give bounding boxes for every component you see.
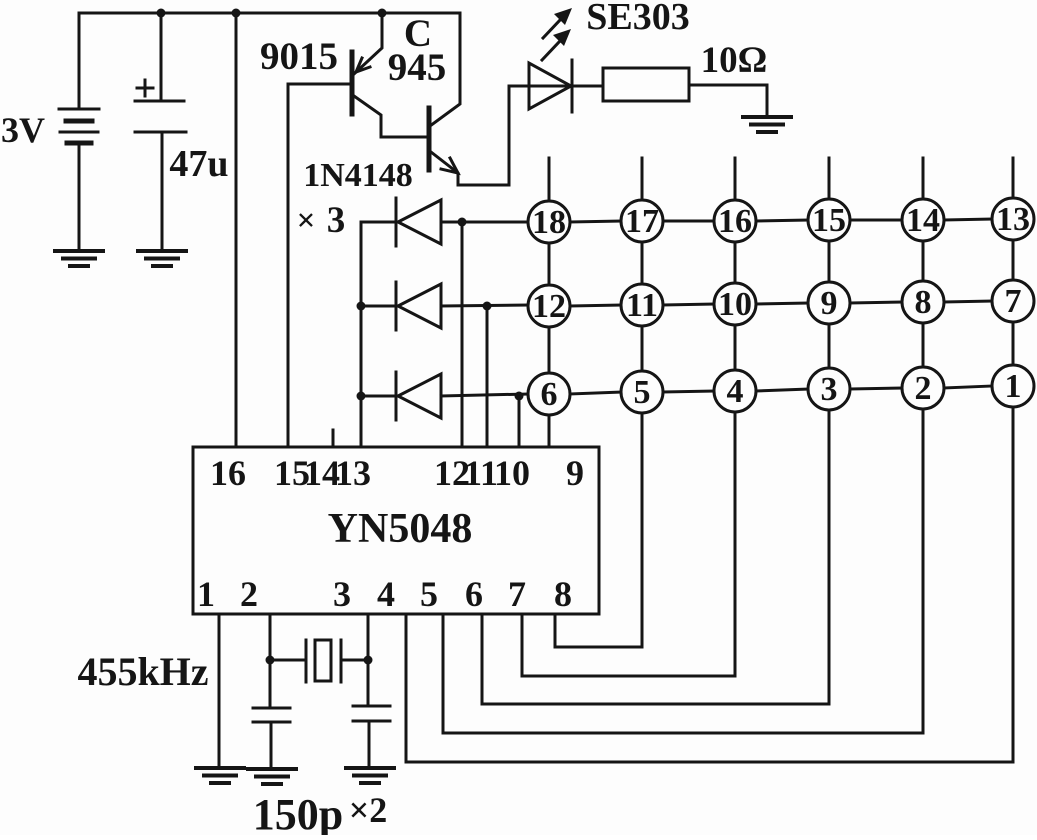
wire: key column 2 down to IC pin 5 route [922, 409, 925, 733]
node: diode row to IC pin 12 [458, 218, 467, 227]
wire: IC pin 2 down [269, 614, 272, 708]
wire: IC pin 4 to key column [406, 614, 1013, 762]
wire: +3V top supply rail [79, 12, 460, 15]
ground (C3) [346, 768, 394, 783]
wire: column 6 to IC pin 9 [548, 415, 551, 447]
node 6 [528, 373, 570, 415]
node 14 [902, 199, 944, 241]
node 1 [992, 365, 1034, 407]
svg-text:13: 13 [996, 201, 1030, 238]
svg-text:6: 6 [465, 574, 483, 614]
node: cathode bus junction D2 [357, 302, 366, 311]
node: rail junction to capacitor 47u [157, 9, 166, 18]
wire: IC pin 5 to key column [443, 614, 923, 733]
wire: matrix row 1 horizontal segments [570, 219, 992, 222]
ground (resistor) [743, 117, 791, 132]
wire: transistor Q1 base to IC pin 15 [288, 84, 350, 447]
ground (battery) [55, 251, 103, 266]
svg-text:11: 11 [464, 453, 498, 493]
svg-text:9: 9 [821, 285, 838, 322]
svg-text:10Ω: 10Ω [701, 40, 768, 81]
node: cathode bus junction D3 [357, 392, 366, 401]
wire: IC pin 8 to key column [555, 614, 642, 647]
svg-text:1N4148: 1N4148 [303, 157, 413, 194]
svg-text:150p: 150p [253, 790, 343, 835]
capacitor C3 150p [353, 706, 390, 768]
wire: key column 3 down to IC pin 6 route [828, 410, 831, 704]
svg-text:12: 12 [532, 288, 566, 325]
svg-text:18: 18 [532, 204, 566, 241]
node 11 [621, 284, 663, 326]
crystal X1 455kHz [270, 640, 368, 682]
svg-text:8: 8 [554, 574, 572, 614]
svg-text:10: 10 [718, 286, 752, 323]
node 15 [808, 199, 850, 241]
wire: matrix row 3 horizontal segments [570, 386, 992, 394]
capacitor C2 150p [253, 708, 290, 769]
svg-text:9015: 9015 [260, 35, 338, 78]
wire: IC pin 3 down [367, 614, 370, 706]
svg-text:YN5048: YN5048 [328, 506, 473, 552]
svg-text:3V: 3V [1, 110, 45, 150]
svg-text:10: 10 [494, 453, 530, 493]
wire: IC pin 6 to key column [482, 614, 829, 704]
wire: key column 4 down to IC pin 7 route [734, 412, 737, 676]
node: rail junction to IC pin 16 [232, 9, 241, 18]
svg-text:4: 4 [377, 574, 395, 614]
node: pin 3 / crystal right [364, 656, 373, 665]
svg-text:16: 16 [210, 453, 246, 493]
svg-text:SE303: SE303 [586, 0, 689, 38]
svg-text:7: 7 [1005, 283, 1022, 320]
wire: Q2 emitter to LED anode [509, 86, 529, 185]
svg-text:×2: ×2 [349, 790, 388, 830]
LED SE303 [529, 60, 603, 112]
wire: matrix row to IC pin 11 [486, 306, 489, 447]
node 16 [714, 200, 756, 242]
node 5 [621, 371, 663, 413]
node 18 [528, 201, 570, 243]
svg-text:16: 16 [718, 203, 752, 240]
diode D2 1N4148 [361, 282, 528, 330]
svg-text:3: 3 [821, 371, 838, 408]
svg-text:6: 6 [541, 376, 558, 413]
wire: IC pin 7 to key column [522, 614, 735, 676]
battery 3V [59, 13, 99, 251]
resistor R1 10 ohm [603, 68, 767, 117]
wire: key column stubs above matrix [549, 158, 1013, 201]
node: rail junction to Q1 emitter [378, 9, 387, 18]
svg-text:945: 945 [388, 46, 447, 89]
svg-text:14: 14 [906, 202, 940, 239]
svg-text:×: × [297, 203, 316, 239]
svg-text:17: 17 [625, 203, 659, 240]
wire: key column 1 down to IC pin 4 route [1012, 407, 1015, 762]
svg-text:15: 15 [812, 202, 846, 239]
ground (C2) [248, 769, 296, 784]
node 9 [808, 282, 850, 324]
svg-text:2: 2 [240, 574, 258, 614]
ground (pin 1) [196, 768, 244, 783]
wire: matrix row to IC pin 10 [518, 396, 521, 447]
node 3 [808, 368, 850, 410]
LED light arrow 1 [543, 8, 572, 38]
svg-text:3: 3 [333, 574, 351, 614]
svg-text:4: 4 [727, 373, 744, 410]
wire: matrix row to IC pin 12 [461, 222, 464, 447]
LED light arrow 2 [542, 29, 571, 60]
wire: key column 5 down to IC pin 8 route [641, 413, 644, 647]
node: diode row to IC pin 10 [515, 392, 524, 401]
node 7 [992, 280, 1034, 322]
wire: matrix row 2 horizontal segments [570, 301, 992, 306]
node 8 [902, 281, 944, 323]
node 10 [714, 283, 756, 325]
node 2 [902, 367, 944, 409]
wire: matrix verticals row2-row3 [549, 322, 1013, 373]
transistor Q2 C945 (NPN) [429, 13, 509, 185]
wire: matrix verticals row1-row2 [549, 240, 1013, 285]
svg-text:3: 3 [327, 200, 346, 241]
svg-text:11: 11 [626, 287, 658, 324]
svg-text:7: 7 [508, 574, 526, 614]
svg-text:1: 1 [1005, 368, 1022, 405]
node 4 [714, 370, 756, 412]
svg-text:47u: 47u [169, 143, 228, 185]
svg-text:9: 9 [566, 453, 584, 493]
node: diode row to IC pin 11 [483, 302, 492, 311]
svg-text:8: 8 [915, 284, 932, 321]
wire: IC pin 1 to ground [218, 614, 221, 768]
diode D3 1N4148 [361, 372, 528, 420]
svg-text:1: 1 [197, 574, 215, 614]
diode D1 1N4148 [361, 198, 528, 246]
svg-text:2: 2 [915, 370, 932, 407]
node 17 [621, 200, 663, 242]
svg-text:13: 13 [335, 453, 371, 493]
node 13 [992, 198, 1034, 240]
svg-text:5: 5 [634, 374, 651, 411]
capacitor C1 47u (electrolytic) [135, 13, 186, 251]
node 12 [528, 285, 570, 327]
transistor Q1 9015 (PNP) [352, 13, 427, 137]
wire: rail to IC pin 16 [235, 13, 238, 447]
node: pin 2 / crystal left [266, 656, 275, 665]
IC U1 YN5048 [193, 447, 599, 614]
ground (capacitor 47u) [138, 251, 186, 266]
wire: IC pin 14 stub [332, 430, 335, 447]
wire: diode common cathode bus to IC pin 13 [360, 222, 363, 447]
svg-text:5: 5 [420, 574, 438, 614]
svg-text:455kHz: 455kHz [77, 649, 208, 694]
